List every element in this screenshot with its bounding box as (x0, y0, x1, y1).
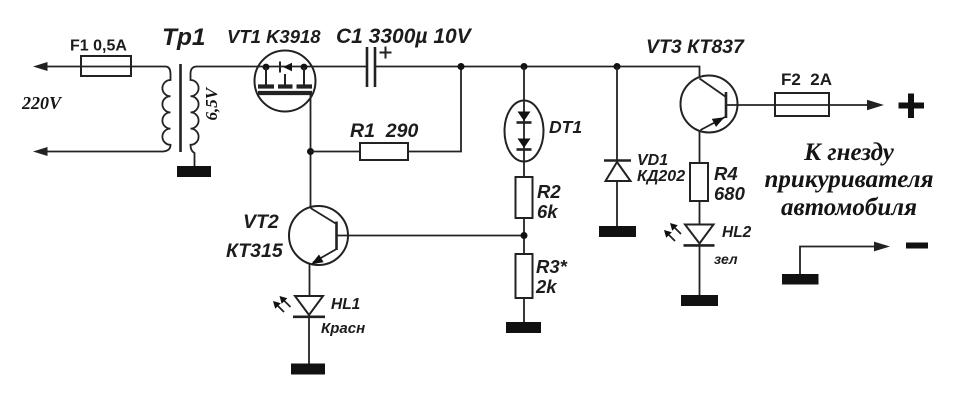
wire R1 right lead up to bus (408, 67, 461, 152)
ground under HL1 (291, 364, 325, 375)
svg-text:2k: 2k (535, 276, 558, 297)
ground under HL2 (681, 295, 718, 306)
svg-text:Красн: Красн (321, 320, 365, 337)
plus terminal symbol (899, 94, 925, 119)
wire VT2 base to divider junction (337, 235, 525, 237)
svg-text:VT2: VT2 (243, 211, 279, 233)
svg-text:C1 3300µ 10V: C1 3300µ 10V (336, 25, 473, 48)
wire VD1 to ground (616, 181, 618, 226)
node junction C1/R1 on bus (458, 63, 465, 70)
svg-text:R4: R4 (714, 163, 738, 184)
wire HL2 cathode to ground (699, 245, 701, 295)
wire bus down to VD1 (616, 67, 618, 161)
svg-text:автомобиля: автомобиля (781, 194, 917, 221)
svg-text:6k: 6k (537, 201, 559, 222)
resistor R1 (360, 143, 408, 160)
ground under VD1 (599, 226, 636, 237)
svg-text:R3*: R3* (536, 256, 568, 277)
svg-text:КТ315: КТ315 (226, 240, 284, 262)
HL1 light arrows (273, 296, 291, 312)
svg-text:R1 290: R1 290 (350, 120, 418, 142)
svg-text:DT1: DT1 (549, 117, 582, 137)
wire 220V bottom lead with left arrow (33, 147, 158, 156)
transistor VT1 (MOSFET) (255, 51, 316, 112)
transformer Tp1 primary winding (158, 67, 171, 152)
ground under R3 (506, 322, 541, 333)
node junction DT1 top on bus (521, 63, 528, 70)
svg-text:К гнезду: К гнезду (803, 139, 895, 166)
wire VT1 gate down to VT2 collector (310, 94, 312, 207)
fuse F2 (775, 93, 829, 116)
wire R1 left lead (311, 151, 361, 153)
transformer Tp1 secondary winding (191, 67, 199, 167)
svg-text:VT1 K3918: VT1 K3918 (227, 26, 321, 47)
capacitor C1 (367, 47, 392, 88)
wire minus output with ground (782, 242, 890, 285)
resistor R4 (690, 163, 708, 201)
svg-text:6,5V: 6,5V (202, 86, 221, 120)
transistor VT3 (681, 76, 738, 133)
svg-text:HL1: HL1 (331, 296, 360, 313)
wire VT3 emitter down to R4 (699, 131, 701, 164)
transistor VT2 (289, 206, 348, 265)
svg-text:220V: 220V (21, 93, 63, 113)
wire R3 to ground (523, 298, 525, 322)
node junction R1 left (307, 148, 314, 155)
node junction divider (521, 232, 528, 239)
transformer Tp1 core (179, 64, 182, 152)
svg-text:зел: зел (714, 251, 738, 267)
wire R2 to R3 (523, 218, 525, 254)
svg-text:HL2: HL2 (722, 224, 752, 241)
node junction VD1 top on bus (614, 63, 621, 70)
svg-text:680: 680 (714, 183, 746, 204)
wire through F2 (775, 104, 829, 106)
svg-text:VD1: VD1 (637, 152, 668, 169)
wire bus down through DT1 to R2 (523, 67, 525, 178)
wire VT2 emitter down to HL1 (309, 264, 311, 296)
wire 220V top lead with left arrow (33, 62, 166, 71)
svg-text:прикуривателя: прикуривателя (765, 166, 934, 193)
wire R4 to HL2 (699, 201, 701, 225)
svg-text:Tp1: Tp1 (162, 24, 206, 51)
HL2 light arrows (664, 223, 681, 241)
wire main bus from C1 to VT3 elbow (375, 67, 700, 77)
resistor R3 (516, 254, 533, 298)
svg-text:КД202: КД202 (637, 168, 685, 185)
wire HL1 cathode to ground (308, 317, 310, 364)
svg-text:R2: R2 (537, 181, 561, 202)
diode VD1 (604, 161, 631, 182)
fuse F1 (81, 56, 131, 76)
output plus arrow (867, 100, 884, 110)
wire VT3 base to output arrow (726, 104, 879, 106)
svg-text:F1 0,5A: F1 0,5A (70, 38, 127, 55)
resistor R2 (516, 177, 533, 218)
diode stack DT1 (505, 101, 544, 162)
svg-text:VT3 КТ837: VT3 КТ837 (646, 36, 745, 58)
minus terminal symbol (906, 243, 928, 249)
svg-text:F2 2A: F2 2A (781, 70, 832, 89)
ground under transformer secondary (177, 166, 211, 177)
LED HL1 (293, 296, 325, 317)
LED HL2 (684, 225, 715, 246)
wire main bus from secondary to C1 (196, 66, 367, 68)
